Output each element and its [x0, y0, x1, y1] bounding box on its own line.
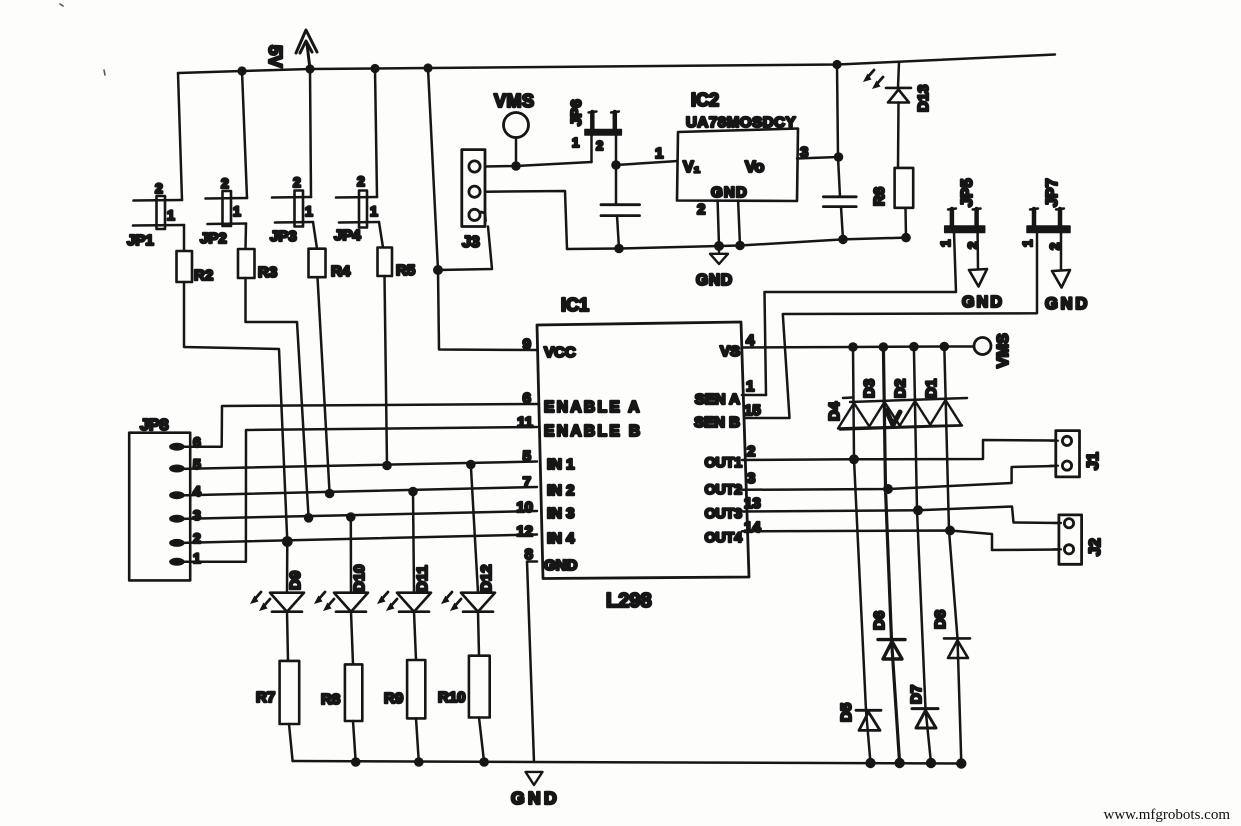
svg-text:J1: J1	[1085, 452, 1102, 470]
node rail-VCC junction	[423, 63, 432, 72]
wire riser rail to JP2	[242, 71, 247, 198]
svg-text:JP2: JP2	[200, 230, 227, 247]
svg-text:JP8: JP8	[140, 417, 169, 434]
svg-text:ENABLE B: ENABLE B	[544, 423, 642, 440]
svg-text:R5: R5	[396, 262, 415, 279]
svg-text:9: 9	[523, 336, 531, 353]
wire OUT2 to J1 pin2	[742, 466, 1055, 490]
svg-text:D6: D6	[871, 611, 888, 630]
svg-text:D2: D2	[892, 379, 909, 398]
node R9-rail junction	[414, 757, 424, 767]
wire JP2 pin1 to R3	[244, 224, 247, 250]
speck marks top left	[60, 4, 105, 75]
wire JP8 pin5 to IN1	[177, 462, 537, 470]
svg-text:1: 1	[572, 135, 579, 150]
jumper JP1	[133, 196, 184, 229]
wire JP5 pin1 to SEN A	[765, 233, 957, 396]
svg-text:1: 1	[1020, 240, 1035, 247]
svg-text:15: 15	[744, 402, 761, 419]
arrows D10 LED marks	[314, 592, 334, 611]
svg-text:UA78MOSDCY: UA78MOSDCY	[686, 114, 796, 131]
node IN2-R4 junction	[325, 489, 335, 499]
LED D12	[471, 465, 478, 593]
svg-text:1: 1	[305, 203, 313, 219]
svg-text:OUT2: OUT2	[705, 481, 743, 497]
op-amp U1 IC2 regulator box	[677, 129, 798, 202]
svg-text:L298: L298	[606, 590, 652, 612]
svg-text:GND: GND	[962, 294, 1004, 311]
terminal VMS right	[974, 338, 991, 355]
wire JP7 pin1 to SEN B	[742, 233, 1037, 419]
svg-text:R2: R2	[194, 267, 213, 284]
svg-text:OUT1: OUT1	[705, 454, 743, 470]
svg-text:1: 1	[938, 240, 953, 247]
svg-text:13: 13	[744, 495, 761, 512]
svg-text:D9: D9	[287, 571, 304, 590]
resistor R4	[309, 249, 326, 278]
wire D3 vertical VS to bottom rail	[883, 347, 899, 763]
diode D2	[899, 401, 931, 427]
svg-text:D5: D5	[838, 703, 855, 722]
wire bottom ground rail	[293, 761, 963, 764]
wire IC2 GND pin b	[738, 201, 740, 246]
wire ground rail middle	[567, 238, 906, 249]
svg-text:IN 1: IN 1	[547, 456, 575, 473]
wire D4 vertical VS to bottom rail	[853, 347, 871, 763]
svg-text:R6: R6	[871, 187, 888, 206]
svg-text:3: 3	[747, 470, 755, 487]
svg-text:2: 2	[697, 201, 705, 218]
connector J2	[1053, 515, 1082, 564]
wire VMS stem	[515, 138, 518, 167]
svg-text:2: 2	[155, 180, 163, 196]
wire riser rail to JP1	[178, 73, 182, 200]
wire R2 to IN4 line	[184, 282, 287, 542]
svg-text:2: 2	[357, 173, 365, 189]
wire R6 to ground rail	[904, 208, 907, 238]
node IN3-R3 junction	[304, 513, 314, 523]
wire JP5 pin2 to GND	[976, 233, 979, 270]
diode D6	[878, 640, 905, 659]
node rail-D1 junction	[956, 758, 966, 768]
svg-text:D12: D12	[478, 564, 495, 592]
node Vo junction	[834, 152, 844, 162]
svg-text:D7: D7	[908, 685, 925, 704]
svg-text:JP4: JP4	[334, 227, 361, 244]
svg-text:J3: J3	[462, 234, 480, 251]
wire R8 to bottom rail	[353, 721, 356, 762]
svg-text:IN 3: IN 3	[547, 505, 575, 522]
svg-text:D10: D10	[351, 564, 368, 592]
wire riser rail to JP3	[310, 69, 311, 197]
capacitor C1	[601, 205, 640, 216]
wire JP7 pin2 to GND	[1060, 233, 1063, 270]
node R10-rail junction	[479, 757, 489, 767]
svg-text:JP7: JP7	[1044, 178, 1061, 207]
svg-text:OUT3: OUT3	[705, 505, 743, 521]
wire JP8 pin1 to ENABLE B	[177, 427, 537, 562]
svg-text:VMS: VMS	[995, 333, 1012, 368]
wire R3 to IN3 line	[246, 278, 309, 518]
jumper JP7	[1027, 209, 1070, 233]
svg-text:3: 3	[193, 507, 201, 523]
svg-text:JP3: JP3	[270, 228, 297, 245]
node IN2-D11 junction	[408, 487, 418, 497]
node rail-JP4 junction	[370, 64, 379, 73]
svg-text:1: 1	[167, 207, 175, 223]
terminal VMS top	[504, 113, 529, 138]
diode bridge bars	[850, 398, 967, 402]
wire JP8 pin2 to IN4	[177, 535, 537, 544]
diode D3	[869, 402, 901, 428]
wire JP1 pin1 to R2	[183, 225, 186, 251]
node R8-rail junction	[351, 757, 361, 767]
wire J3 pin1 to JP6 pin1	[485, 162, 592, 167]
wire J3 pin3 to VCC riser	[438, 227, 492, 271]
diode D8	[944, 638, 970, 658]
wire riser rail to JP4	[375, 69, 377, 198]
svg-text:R4: R4	[331, 263, 351, 280]
wire JP8 pin4 to IN2	[177, 487, 537, 496]
wire JP4 pin1 to R5	[379, 222, 383, 248]
svg-text:12: 12	[516, 523, 533, 540]
svg-text:D3: D3	[861, 379, 878, 398]
diode D7	[912, 709, 938, 728]
svg-text:www.mfgrobots.com: www.mfgrobots.com	[1103, 807, 1230, 823]
jumper JP2	[206, 191, 248, 226]
svg-text:OUT4: OUT4	[705, 529, 743, 545]
svg-text:1: 1	[746, 378, 754, 395]
wire JP3 pin1 to R4	[313, 222, 317, 249]
node VS-D3 junction	[879, 342, 889, 352]
wire D2 vertical VS to bottom rail	[914, 347, 931, 763]
svg-text:JP5: JP5	[959, 178, 976, 207]
svg-text:2: 2	[747, 443, 755, 460]
node IN1-R5 junction	[382, 461, 392, 471]
svg-text:10: 10	[516, 499, 533, 516]
wire C1 to ground rail	[617, 216, 619, 249]
LED D9	[286, 542, 289, 593]
wire OUT3 to J2 pin1	[742, 507, 1059, 524]
wire R7 to bottom rail	[289, 724, 293, 761]
connector J1	[1050, 431, 1080, 477]
svg-text:V₁: V₁	[683, 159, 701, 176]
node VCC-J3 junction	[433, 265, 443, 275]
svg-text:1: 1	[233, 203, 241, 219]
svg-text:GND: GND	[711, 184, 748, 201]
wire R4 to IN2 line	[318, 277, 330, 493]
svg-text:4: 4	[193, 483, 201, 499]
ground symbol below IC2	[710, 248, 728, 264]
svg-text:R7: R7	[256, 689, 275, 706]
svg-text:2: 2	[293, 174, 301, 190]
svg-text:GND: GND	[544, 557, 578, 574]
wire pin8 GND stub to bottom rail	[527, 562, 537, 763]
svg-text:R8: R8	[321, 691, 340, 708]
wire Vo riser (rail to C2)	[837, 65, 840, 197]
wire JP8 pin6 to ENABLE A	[177, 404, 537, 447]
ground symbol JP7	[1052, 270, 1070, 288]
svg-text:ENABLE A: ENABLE A	[544, 399, 642, 416]
node rail-JP2 junction	[237, 66, 246, 75]
svg-text:2: 2	[596, 138, 603, 153]
svg-text:R10: R10	[438, 689, 466, 706]
svg-text:J2: J2	[1087, 538, 1104, 556]
jumper JP6	[585, 112, 622, 136]
svg-text:1: 1	[193, 550, 201, 566]
node rail-D4 junction	[865, 758, 875, 768]
diode D4	[838, 403, 870, 429]
wire R5 to IN1 line	[385, 276, 388, 466]
svg-text:1: 1	[370, 203, 378, 219]
wire VCC riser rail to IC1 pin9	[428, 68, 537, 350]
power 5V arrow symbol	[296, 30, 317, 69]
node OUT3-D2 junction	[913, 505, 923, 515]
diode D1	[930, 400, 962, 426]
svg-text:D13: D13	[915, 84, 932, 112]
node rail-D3 junction	[894, 758, 904, 768]
svg-text:2: 2	[221, 175, 229, 191]
node IN1-D12 junction	[466, 460, 476, 470]
svg-text:14: 14	[744, 519, 761, 536]
svg-text:IN 4: IN 4	[547, 530, 575, 547]
svg-text:JP6: JP6	[568, 99, 585, 126]
node rail-Vo junction	[832, 60, 841, 69]
svg-text:11: 11	[517, 414, 533, 431]
svg-text:VMS: VMS	[494, 91, 535, 111]
wire JP6 junction to IC2 Vi	[616, 161, 678, 165]
svg-text:GND: GND	[511, 788, 560, 808]
diode D13	[898, 62, 899, 88]
wire IC2 GND pin a	[718, 201, 719, 247]
svg-text:1: 1	[655, 145, 663, 162]
wire R9 to bottom rail	[416, 718, 419, 762]
ground symbol bottom	[526, 772, 543, 785]
svg-text:D11: D11	[414, 565, 431, 592]
resistor R10	[469, 656, 490, 718]
svg-text:IN 2: IN 2	[547, 482, 575, 499]
node OUT2-D3 junction	[883, 484, 893, 494]
ground symbol JP5	[969, 269, 987, 287]
capacitor C2	[823, 197, 856, 207]
wire JP6 pin1 down	[590, 135, 593, 162]
svg-text:5V: 5V	[265, 45, 286, 68]
node rail-5V-arrow junction	[305, 64, 314, 73]
svg-text:Vo: Vo	[745, 159, 764, 176]
svg-text:SEN A: SEN A	[695, 391, 740, 408]
node OUT1-D4 junction	[849, 454, 859, 464]
jumper JP4	[336, 191, 379, 228]
node VS-D1 junction	[940, 342, 950, 352]
wire J3 pin2 routing to ground rail	[485, 191, 567, 249]
node rail-D2 junction	[926, 758, 936, 768]
node C1-gnd junction	[614, 244, 624, 254]
svg-text:VS: VS	[720, 343, 740, 360]
wire OUT1 to J1 pin1	[742, 440, 1055, 460]
wire SEN A stub	[742, 394, 766, 397]
node JP6-C1-IC2 junction	[611, 160, 621, 170]
svg-text:IC1: IC1	[561, 295, 589, 315]
wire R10 to bottom rail	[479, 718, 484, 763]
node IN3-D10 junction	[346, 512, 356, 522]
arrows D9 LED marks	[250, 592, 270, 611]
node IC2 gnd-b junction	[735, 241, 745, 251]
svg-text:GND: GND	[1045, 295, 1090, 313]
wire VS line to VMS	[742, 347, 974, 348]
diode D5	[856, 710, 881, 730]
resistor R7	[280, 661, 300, 724]
arrows D13 LED marks	[863, 70, 883, 89]
resistor R2	[177, 251, 193, 282]
resistor R6	[895, 168, 914, 208]
svg-text:D4: D4	[826, 401, 843, 421]
resistor R8	[345, 664, 362, 721]
wire OUT4 to J2 pin2	[742, 531, 1062, 551]
connector JP8	[129, 433, 190, 581]
pin ovals JP8	[169, 443, 185, 566]
jumper JP5	[945, 209, 985, 233]
wire 5V top rail	[178, 55, 1055, 74]
wire JP6 pin2 down to C1	[615, 135, 618, 204]
node IC2 gnd-a junction	[714, 241, 724, 251]
resistor R9	[407, 660, 425, 718]
svg-text:R9: R9	[384, 690, 403, 707]
LED D10	[350, 517, 353, 593]
svg-text:SEN B: SEN B	[694, 414, 740, 431]
wire C2 to ground rail	[841, 207, 843, 240]
svg-text:R3: R3	[258, 264, 277, 281]
svg-text:JP1: JP1	[127, 232, 154, 249]
arrows D11 LED marks	[377, 592, 397, 611]
svg-text:D8: D8	[932, 610, 949, 629]
node OUT4-D1 junction	[945, 526, 955, 536]
wire JP8 pin3 to IN3	[177, 511, 537, 519]
node C2-gnd junction	[838, 235, 848, 245]
transistor IC1 L298 box	[537, 322, 749, 579]
jumper JP3	[272, 191, 313, 227]
wire D1 vertical VS to bottom rail	[944, 347, 961, 764]
arrows D12 LED marks	[441, 592, 461, 611]
svg-text:VCC: VCC	[544, 344, 576, 361]
svg-text:GND: GND	[696, 272, 733, 289]
wire IC2 Vo to riser	[797, 157, 838, 159]
svg-text:D1: D1	[923, 379, 940, 398]
LED D11	[413, 492, 414, 593]
resistor R3	[238, 249, 255, 278]
node VMS junction	[511, 161, 521, 171]
node IN4-R2-D9 junction	[282, 536, 293, 547]
node VS-D4 junction	[848, 342, 858, 352]
node R6-gnd junction	[901, 233, 911, 243]
svg-text:IC2: IC2	[691, 90, 719, 110]
resistor R5	[378, 248, 393, 277]
connector J3	[462, 150, 486, 227]
node VS-D2 junction	[909, 342, 919, 352]
